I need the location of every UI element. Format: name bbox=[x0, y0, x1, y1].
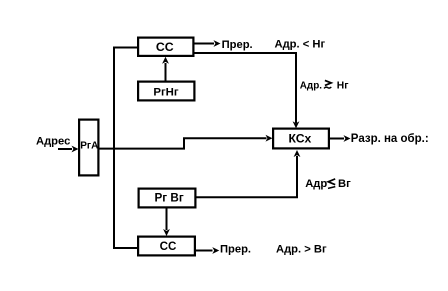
svg-text:Нг: Нг bbox=[337, 80, 349, 91]
wire: trunk to lower CC left input bbox=[113, 247, 138, 249]
block РгВг upper-bound register bbox=[139, 189, 196, 208]
wire: lower CC output arrow to Прер. bbox=[196, 250, 213, 252]
svg-text:Адр. < Нг: Адр. < Нг bbox=[275, 39, 326, 51]
svg-text:Прер.: Прер. bbox=[220, 243, 251, 255]
svg-text:Адр.: Адр. bbox=[300, 80, 322, 91]
wire: РгНг output arrow up into upper CC bbox=[165, 63, 167, 82]
svg-text:Адр: Адр bbox=[305, 178, 327, 190]
wire: КСх output arrow to Разр. на обр. bbox=[330, 138, 345, 140]
svg-text:Разр. на обр.:: Разр. на обр.: bbox=[351, 133, 429, 145]
wire: vertical trunk from address bus bbox=[113, 48, 115, 249]
wire: РгВг output arrow down into lower CC bbox=[166, 208, 168, 230]
svg-text:РгА: РгА bbox=[80, 141, 98, 152]
block КСх combinational circuit bbox=[273, 129, 329, 149]
block CC1 upper comparator bbox=[138, 38, 193, 56]
wire: upper CC output arrow to Прер. bbox=[194, 43, 214, 45]
svg-text:Адрес: Адрес bbox=[36, 136, 70, 148]
svg-text:Прер.: Прер. bbox=[222, 39, 253, 51]
wire: РгА output with jog to КСх left input bbox=[98, 138, 267, 149]
svg-text:Адр. > Вг: Адр. > Вг bbox=[276, 243, 327, 255]
wire: trunk to upper CC left input bbox=[113, 47, 138, 49]
svg-text:РгНг: РгНг bbox=[153, 87, 179, 99]
block CC2 lower comparator bbox=[138, 237, 195, 256]
block РгНг lower-bound register bbox=[138, 82, 194, 101]
svg-text:Вг: Вг bbox=[338, 178, 351, 190]
wire: Адрес input arrow into РгА bbox=[58, 148, 72, 150]
svg-text:СС: СС bbox=[160, 240, 177, 253]
svg-text:СС: СС bbox=[156, 40, 174, 54]
block РгА address register bbox=[79, 120, 98, 176]
svg-text:Рг Вг: Рг Вг bbox=[154, 192, 183, 205]
wire: upper CC lower output to КСх top input bbox=[194, 52, 296, 123]
svg-text:КСх: КСх bbox=[288, 131, 311, 145]
wire: РгВг output to КСх bottom input bbox=[196, 156, 297, 198]
